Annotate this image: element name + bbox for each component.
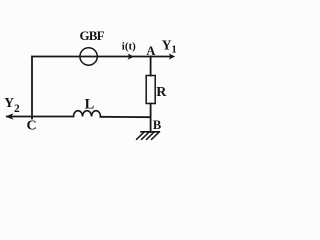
svg-text:i(t): i(t) [122,41,136,53]
svg-text:R: R [156,85,167,100]
ground hatch lines [137,132,159,139]
generator GBF circle [80,48,97,65]
probe arrow Y1 arrowhead [169,53,176,59]
svg-text:GBF: GBF [80,28,105,43]
current arrow i(t) arrowhead [128,54,135,60]
ground bar [141,131,159,133]
svg-text:C: C [27,119,37,134]
wire top horizontal from left corner through GBF to node A and beyond [32,56,172,58]
svg-text:B: B [153,118,161,132]
resistor R body [146,76,155,104]
wire bottom horizontal right segment (inductor to node B) [101,116,151,118]
inductor L coil [74,111,101,117]
svg-text:A: A [146,44,155,58]
svg-text:Y2: Y2 [4,95,20,115]
wire left vertical branch [31,57,33,119]
svg-text:Y1: Y1 [162,37,177,55]
wire resistor top lead from node A [150,57,152,76]
wire bottom horizontal left segment (Y2 arrow through C to inductor) [7,116,74,118]
probe arrow Y2 arrowhead [5,113,13,120]
wire resistor bottom lead through node B to ground [150,104,152,133]
svg-text:L: L [85,97,95,113]
